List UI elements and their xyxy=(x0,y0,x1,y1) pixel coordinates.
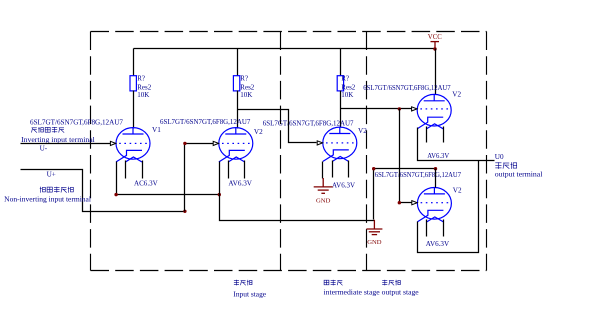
wire to lower output tube plate xyxy=(374,168,436,170)
label inverting input (Chinese) xyxy=(32,127,65,133)
wire U+ input xyxy=(21,170,185,212)
label non-inverting input (Chinese) xyxy=(40,187,74,193)
label output terminal (Chinese) xyxy=(495,162,516,169)
svg-text:R?: R? xyxy=(341,75,349,83)
resistor R2 10K xyxy=(233,76,239,91)
svg-text:AV6.3V: AV6.3V xyxy=(426,240,450,248)
svg-text:VCC: VCC xyxy=(428,34,442,41)
grid input arrow of V1 xyxy=(110,141,115,145)
vacuum tube triode V1 xyxy=(116,128,150,162)
svg-text:U+: U+ xyxy=(47,171,56,179)
heater pins of V1 xyxy=(125,161,127,179)
ground symbol GND xyxy=(366,220,382,235)
svg-text:output terminal: output terminal xyxy=(495,170,543,179)
vacuum tube triode V2 xyxy=(219,128,253,162)
heater pins of V2c xyxy=(426,127,428,143)
label intermediate stage (Chinese) xyxy=(324,280,342,286)
svg-text:output stage: output stage xyxy=(382,288,420,297)
label input stage (Chinese) xyxy=(234,280,252,286)
svg-text:6SL7GT/6SN7GT,6F8G,12AU7: 6SL7GT/6SN7GT,6F8G,12AU7 xyxy=(30,118,123,127)
svg-text:Inverting input terminal: Inverting input terminal xyxy=(21,135,95,144)
svg-text:10K: 10K xyxy=(137,91,149,99)
wire R1 to V1 plate xyxy=(133,91,135,129)
wire to lower output tube grid xyxy=(400,109,412,203)
svg-text:AC6.3V: AC6.3V xyxy=(134,179,158,187)
wire VCC to output tube plate xyxy=(435,49,437,95)
junction lower grid corner xyxy=(398,201,401,204)
svg-text:10K: 10K xyxy=(341,91,353,99)
vacuum tube triode V2d xyxy=(417,188,451,222)
label output stage (Chinese) xyxy=(382,280,400,286)
svg-text:R?: R? xyxy=(137,75,145,83)
svg-text:6SL7GT/6SN7GT,6F8G,12AU7: 6SL7GT/6SN7GT,6F8G,12AU7 xyxy=(160,117,251,126)
wire U+ riser to V2 grid xyxy=(185,144,214,212)
wire V2 cathode down to ground bus xyxy=(220,162,375,221)
junction at VCC xyxy=(433,47,436,50)
svg-text:V2: V2 xyxy=(452,90,461,98)
svg-text:10K: 10K xyxy=(240,91,252,99)
svg-text:V2: V2 xyxy=(358,127,367,135)
svg-text:intermediate stage: intermediate stage xyxy=(324,288,381,297)
wire R3 junction to output tube grid xyxy=(341,108,412,110)
wire rail to R1 xyxy=(133,49,135,76)
wire lower output tube cathode loop xyxy=(418,161,479,253)
dashed stage boundary box xyxy=(91,32,487,271)
svg-text:V2: V2 xyxy=(453,187,462,195)
resistor R1 10K xyxy=(130,76,136,91)
svg-text:AV6.3V: AV6.3V xyxy=(427,152,450,160)
heater pins of V2b xyxy=(332,161,334,178)
heater pins of V2 xyxy=(228,161,230,179)
svg-text:AV6.3V: AV6.3V xyxy=(332,181,356,189)
junction cathode bus xyxy=(218,193,221,196)
vacuum tube triode V2c xyxy=(417,94,451,128)
vacuum tube triode V2b xyxy=(323,127,357,161)
svg-text:R?: R? xyxy=(240,75,248,83)
junction output grids xyxy=(398,107,401,110)
power symbol VCC xyxy=(431,42,440,49)
wire R3 to V2 plate xyxy=(340,91,342,128)
svg-text:V1: V1 xyxy=(152,126,161,134)
svg-text:6SL7GT/6SN7GT,6F8G,12AU7: 6SL7GT/6SN7GT,6F8G,12AU7 xyxy=(263,119,354,128)
svg-text:GND: GND xyxy=(367,239,382,246)
wire U- input xyxy=(21,143,112,145)
svg-text:U0: U0 xyxy=(495,153,504,161)
grid input arrow of V2 xyxy=(213,141,218,145)
ground symbol GND xyxy=(314,178,333,193)
wire down to lower tube plate xyxy=(435,169,437,188)
grid input arrow of V2b xyxy=(317,141,322,145)
heater pins of V2d xyxy=(426,220,428,237)
grid input arrow of V2d xyxy=(412,201,417,205)
wire V2 plate to intermediate grid xyxy=(238,110,317,143)
resistor R3 10K xyxy=(337,76,343,91)
wire ground bus to lower output plate xyxy=(373,169,375,220)
wire rail to R2 xyxy=(237,49,239,76)
junction plate line left xyxy=(372,167,375,170)
junction plate line right xyxy=(434,167,437,170)
wire upper output tube cathode down xyxy=(418,128,495,161)
svg-text:AV6.3V: AV6.3V xyxy=(228,179,252,187)
wire R2 to V2 plate xyxy=(237,91,239,129)
svg-text:Non-inverting input terminal: Non-inverting input terminal xyxy=(4,195,91,204)
grid input arrow of V2c xyxy=(412,107,417,111)
svg-text:6SL7GT/6SN7GT,6F8G,12AU7: 6SL7GT/6SN7GT,6F8G,12AU7 xyxy=(375,170,461,179)
svg-text:GND: GND xyxy=(316,197,331,204)
svg-text:Input stage: Input stage xyxy=(233,289,266,298)
svg-text:V2: V2 xyxy=(254,128,263,136)
svg-text:U-: U- xyxy=(40,144,48,152)
junction U+ riser xyxy=(183,210,186,213)
wire V2 intermediate cathode to ground xyxy=(322,162,324,179)
wire V1 cathode down xyxy=(117,162,220,195)
wire rail to R3 xyxy=(340,49,342,76)
wire VCC supply rail xyxy=(134,48,435,50)
junction V1 cathode corner xyxy=(114,193,117,196)
svg-text:6SL7GT/6SN7GT,6F8G,12AU7: 6SL7GT/6SN7GT,6F8G,12AU7 xyxy=(363,83,451,92)
